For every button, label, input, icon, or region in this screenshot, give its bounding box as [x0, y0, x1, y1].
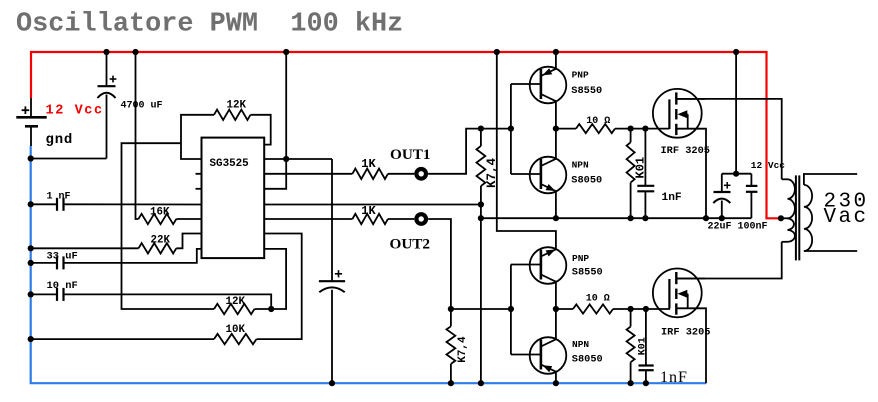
capacitor C1 4700 uF bottom lead: [106, 95, 108, 159]
resistor 1K lower: [352, 214, 388, 224]
svg-text:Oscillatore PWM 100 kHz: Oscillatore PWM 100 kHz: [16, 10, 403, 40]
svg-text:1nF: 1nF: [660, 369, 688, 386]
transistor Q4 NPN S8050 lower emitter arrow: [542, 365, 552, 372]
capacitor 22uF top lead: [721, 174, 723, 192]
junction 4.7K-blue: [478, 380, 484, 386]
junction blue-1 nF: [28, 201, 34, 207]
transistor Q4 NPN S8050 lower base lead: [511, 354, 541, 356]
svg-text:12 Vcc: 12 Vcc: [46, 104, 104, 119]
wire 22K to IC pin: [176, 234, 201, 249]
wire lower source to blue end: [704, 308, 707, 383]
svg-text:12 Vcc: 12 Vcc: [751, 160, 786, 171]
junction red-Vcc drop: [283, 49, 289, 55]
mosfet M2 IRF3205 lower channel segments: [675, 272, 677, 284]
svg-text:10K: 10K: [226, 324, 246, 336]
capacitor 1nF lower plates: [639, 364, 654, 366]
capacitor C1 4700 uF plate: [98, 85, 116, 87]
wire 4.7K upper top lead: [480, 129, 482, 146]
wire battery bottom lead: [30, 126, 32, 146]
wire 10K upper leads: [630, 129, 632, 143]
wire 12K top to IC right pin: [251, 115, 271, 145]
transistor Q2 NPN S8050 upper emitter arrow: [546, 184, 556, 191]
mosfet M1 IRF3205 upper body diode arrow: [678, 110, 688, 118]
resistor 1K upper: [352, 169, 388, 179]
junction blue-22K: [28, 245, 34, 251]
wire 10ohm to gate: [615, 128, 669, 130]
wire +12V drop to IC Vcc pin: [285, 52, 287, 159]
transistor Q2 NPN S8050 upper upper lead: [541, 159, 556, 166]
transistor Q3 PNP S8550 lower base bar: [540, 250, 543, 280]
wire vcc node to caps: [722, 173, 752, 175]
capacitor C soft-start bottom lead: [331, 290, 333, 384]
mosfet M2 IRF3205 lower body circle: [653, 269, 702, 318]
transistor Q2 NPN S8050 upper base bar: [540, 159, 543, 189]
mosfet M2 IRF3205 lower body diode arrow: [678, 290, 688, 298]
transistor Q2 NPN S8050 upper base lead: [511, 173, 541, 175]
junction OUT1-4.7K: [478, 126, 484, 132]
junction 4.7K lower-blue: [448, 380, 454, 386]
transistor Q2 NPN S8050 upper body circle: [530, 157, 567, 194]
wire lower collectors tie: [555, 282, 557, 340]
svg-text:33 uF: 33 uF: [47, 250, 78, 262]
svg-text:K01: K01: [638, 337, 649, 355]
capacitor 1nF upper plates: [637, 185, 654, 187]
transistor Q4 NPN S8050 lower body circle: [530, 337, 567, 374]
transformer T1 secondary winding: [804, 185, 812, 251]
wire upper NPN emitter to rail: [555, 191, 557, 218]
wire 10K bottom left lead: [31, 338, 214, 340]
junction battery gnd node: [28, 155, 34, 161]
wire battery top lead: [30, 98, 32, 116]
resistor 10 Ohm upper: [576, 124, 615, 133]
wire +12V red top rail: [31, 52, 781, 218]
transistor Q4 NPN S8050 lower lower lead: [541, 365, 556, 372]
svg-text:gnd: gnd: [46, 132, 74, 148]
junction 4.7K-railB: [478, 215, 484, 221]
svg-text:S8050: S8050: [572, 353, 603, 365]
svg-text:1K: 1K: [361, 157, 376, 171]
resistor 12K bottom: [214, 304, 255, 314]
wire 16K to IC pin: [176, 218, 201, 220]
svg-text:16K: 16K: [150, 206, 170, 218]
wire IC gnd pin row: [264, 204, 481, 206]
capacitor 33 uF plates: [56, 256, 58, 269]
wire collectors to 10ohm: [556, 128, 576, 130]
wire red rail to upper PNP emitter: [555, 52, 557, 69]
svg-text:22K: 22K: [151, 234, 171, 246]
wire upper bases tie: [510, 84, 512, 174]
wire 10 nF left lead: [31, 293, 57, 295]
junction softstart-blue: [329, 380, 335, 386]
transformer T1 primary winding: [788, 179, 795, 242]
capacitor 22uF plus sign: [724, 184, 731, 186]
wire IC outB pin to 1K: [264, 218, 352, 220]
svg-text:1K: 1K: [361, 204, 376, 218]
junction 22uF-railB: [719, 215, 725, 221]
svg-text:PNP: PNP: [572, 70, 589, 81]
junction lower bases: [508, 306, 514, 312]
transistor Q4 NPN S8050 lower upper lead: [541, 339, 556, 346]
svg-text:1nF: 1nF: [662, 192, 682, 204]
capacitor 22uF bottom lead: [721, 201, 723, 219]
resistor 4.7K lower: [447, 326, 456, 364]
transistor Q1 PNP S8550 upper body circle: [530, 67, 567, 104]
transistor Q1 PNP S8550 upper upper lead: [541, 69, 556, 76]
junction red-4700uF: [103, 49, 109, 55]
svg-text:12K: 12K: [226, 296, 246, 308]
wire 10K lower leads: [630, 309, 632, 327]
svg-text:Vac: Vac: [824, 206, 869, 229]
transistor Q3 PNP S8550 lower emitter arrow: [546, 250, 556, 257]
capacitor C soft-start top lead: [331, 159, 333, 281]
wire OUT2 down to lower driver: [428, 219, 451, 309]
capacitor 1 nF plates: [56, 198, 58, 211]
capacitor C1 4700 uF curved plate: [98, 93, 116, 98]
junction upper source-railB: [703, 215, 709, 221]
capacitor C soft-start plate: [319, 280, 345, 282]
capacitor C soft-start plus sign: [335, 273, 342, 275]
svg-text:IRF 3205: IRF 3205: [661, 145, 710, 157]
wire +12V drop right: [735, 52, 737, 174]
transistor Q2 NPN S8050 upper lower lead: [541, 184, 556, 191]
mosfet M1 IRF3205 upper drain lead: [676, 98, 705, 100]
svg-text:IRF 3205: IRF 3205: [661, 326, 710, 338]
wire lower drain to transformer: [676, 242, 781, 279]
battery minus plate: [25, 125, 38, 128]
resistor 10 Ohm lower: [573, 304, 613, 313]
wire battery minus to 4700uF: [31, 158, 107, 160]
wire 22K left lead: [31, 247, 139, 249]
transformer T1 core: [795, 175, 797, 260]
junction red-right vcc: [733, 49, 739, 55]
svg-text:NPN: NPN: [572, 339, 589, 350]
wire 10nF under IC to 12K node: [64, 294, 272, 309]
mosfet M1 IRF3205 upper channel segments: [675, 92, 677, 104]
battery 12 Vcc plus plate: [16, 116, 46, 119]
wire 4.7K lower top lead: [450, 309, 452, 326]
junction collectors upper: [553, 126, 559, 132]
mosfet M2 IRF3205 lower drain lead: [676, 278, 705, 280]
transistor Q1 PNP S8550 upper base bar: [540, 69, 543, 99]
svg-text:4700 uF: 4700 uF: [121, 100, 163, 111]
wire 1 nF left lead: [31, 203, 57, 205]
capacitor C soft-start curved plate: [319, 287, 344, 292]
IC pin stub left a: [196, 173, 202, 175]
wire IC osc pin to 12K: [181, 115, 214, 159]
resistor 10K upper: [627, 142, 635, 182]
svg-text:S8050: S8050: [571, 174, 602, 186]
junction vcc filter node: [733, 171, 739, 177]
resistor 4.7K upper: [477, 146, 486, 186]
transistor Q3 PNP S8550 lower body circle: [530, 247, 567, 284]
junction OUT2-4.7K lower: [448, 306, 454, 312]
svg-text:OUT2: OUT2: [390, 236, 431, 253]
svg-text:10 nF: 10 nF: [47, 280, 78, 292]
wire ground blue rail: [31, 146, 706, 383]
junction blue-33 uF: [28, 260, 34, 266]
wire +12V route to lower PNP: [497, 52, 556, 249]
wire lower bases tie: [510, 265, 512, 355]
capacitor C1 plus sign: [110, 78, 117, 80]
wire 12K bottom to junction: [255, 308, 272, 310]
resistor 12K top: [214, 110, 250, 120]
wire 1K to OUT2: [388, 218, 414, 220]
svg-text:K7,4: K7,4: [457, 336, 469, 363]
junction gate-10K upper: [628, 126, 634, 132]
junction red-lower route: [494, 49, 500, 55]
wire ground rail upper section: [481, 217, 752, 219]
mosfet M2 IRF3205 lower source lead: [676, 307, 705, 309]
op-amp U1 SG3525 body: [202, 138, 265, 259]
wire lower NPN emitter to blue: [555, 372, 557, 384]
wire 100nF leads: [750, 174, 752, 186]
wire IC Vcc pin row: [264, 158, 332, 160]
transistor Q1 PNP S8550 upper lower lead: [541, 94, 556, 101]
wire 4.7K lower bottom lead: [450, 364, 452, 383]
resistor 10K bottom: [214, 334, 256, 344]
junction OUT1-bases: [508, 126, 514, 132]
wire upper drain to transformer: [676, 99, 781, 179]
svg-text:S8550: S8550: [571, 85, 602, 97]
svg-text:22uF 100nF: 22uF 100nF: [708, 221, 768, 232]
junction collectors lower: [553, 306, 559, 312]
mosfet M1 IRF3205 upper source lead: [676, 128, 705, 130]
junction 10K lower-blue: [628, 380, 634, 386]
wire 1K to OUT1: [388, 173, 414, 175]
capacitor 22uF plate: [714, 191, 731, 193]
mosfet M2 IRF3205 lower gate bar: [668, 279, 670, 309]
svg-text:SG3525: SG3525: [210, 158, 249, 170]
svg-text:1 nF: 1 nF: [47, 191, 71, 202]
junction upper emitter-railB: [553, 215, 559, 221]
svg-text:10 Ω: 10 Ω: [586, 116, 610, 127]
wire feedback tap: [122, 143, 215, 309]
junction red-upper emitter: [553, 49, 559, 55]
svg-text:12K: 12K: [227, 100, 247, 112]
wire OUT2 row to bases: [451, 308, 511, 310]
wire lower collectors to 10ohm: [556, 308, 573, 310]
wire junction up to IC pin: [264, 249, 286, 309]
capacitor 10 nF plates: [56, 288, 58, 301]
wire 10ohm to lower gate: [613, 308, 670, 310]
mosfet M1 IRF3205 upper gate bar: [668, 99, 670, 129]
junction center tap +12V: [778, 215, 784, 221]
junction blue-10 nF: [28, 291, 34, 297]
wire OUT1 to driver bases: [428, 129, 511, 174]
resistor 22K: [139, 243, 177, 253]
junction lower gate-1nF: [643, 306, 649, 312]
IC pin stub left b: [196, 188, 202, 190]
transistor Q3 PNP S8550 lower lower lead: [541, 275, 556, 282]
junction blue-10K: [28, 336, 34, 342]
junction gate-1nF upper: [642, 126, 648, 132]
junction 4.7K-gnd row: [478, 201, 484, 207]
wire IC outA pin to 1K: [264, 173, 352, 175]
junction red-16K feed: [132, 49, 138, 55]
wire secondary top lead: [804, 174, 857, 185]
svg-text:OUT1: OUT1: [390, 146, 431, 163]
junction Vcc pins tie: [283, 156, 289, 162]
node OUT1 terminal ring: [414, 167, 428, 181]
transistor Q3 PNP S8550 lower upper lead: [541, 249, 556, 256]
mosfet M1 IRF3205 upper body circle: [653, 89, 702, 138]
svg-text:PNP: PNP: [572, 253, 589, 264]
junction 1nF lower-blue: [643, 380, 649, 386]
wire secondary bottom lead: [804, 250, 857, 252]
wire 4.7K upper to ground rail: [480, 186, 482, 383]
capacitor 22uF curved plate: [713, 199, 730, 203]
resistor 10K lower: [627, 327, 635, 363]
junction 12K bottom node: [268, 306, 274, 312]
resistor 16K: [138, 214, 176, 224]
junction 1nF upper-railB: [642, 215, 648, 221]
transistor Q1 PNP S8550 upper base lead: [511, 83, 541, 85]
svg-text:NPN: NPN: [572, 160, 589, 171]
transistor Q1 PNP S8550 upper emitter arrow: [542, 68, 552, 75]
wire 1nF lower leads: [645, 309, 647, 366]
svg-text:S8550: S8550: [572, 266, 603, 278]
capacitor 100nF plates: [746, 185, 758, 187]
battery plus sign: [22, 109, 30, 111]
wire 33uF to IC pin: [64, 249, 202, 263]
wire 1nF upper leads: [644, 129, 646, 186]
junction lower gate-10K: [628, 306, 634, 312]
transistor Q3 PNP S8550 lower base lead: [511, 264, 541, 266]
junction 10K upper-railB: [628, 215, 634, 221]
svg-text:10 Ω: 10 Ω: [586, 293, 610, 304]
transistor Q4 NPN S8050 lower base bar: [540, 340, 543, 370]
capacitor C1 4700 uF top lead: [106, 52, 108, 86]
wire 1nF to IC pin: [64, 203, 202, 205]
wire upper source to ground rail: [705, 129, 707, 219]
junction lower emitter-blue: [553, 380, 559, 386]
wire +12V drop to 16K: [136, 52, 139, 219]
wire upper collectors tie: [555, 101, 557, 159]
wire 33 uF left lead: [31, 262, 57, 264]
wire Vcc to second pin: [264, 159, 286, 189]
wire 10K bottom to IC pin: [257, 234, 302, 340]
node OUT2 terminal ring: [414, 212, 428, 226]
